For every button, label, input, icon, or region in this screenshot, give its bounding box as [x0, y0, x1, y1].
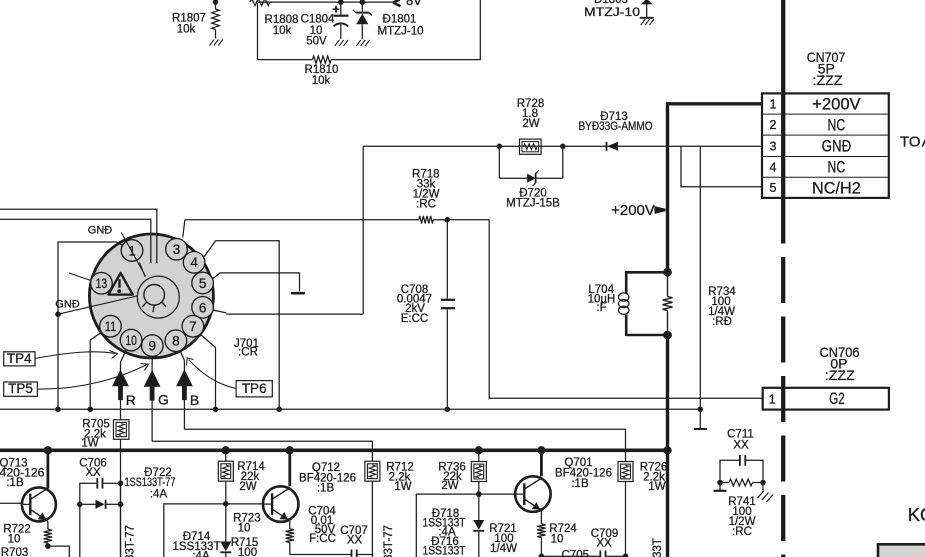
svg-text:2W: 2W	[522, 118, 539, 130]
svg-text:9: 9	[149, 339, 157, 354]
label R734	[708, 286, 736, 328]
svg-text:8V: 8V	[406, 0, 422, 8]
wire pin5 to ground	[213, 273, 300, 292]
label C706	[79, 458, 107, 480]
svg-text:6: 6	[199, 300, 207, 315]
labels D718/D716 stack	[423, 508, 466, 557]
svg-text:TP5: TP5	[8, 381, 33, 396]
ground (chassis) R741 right	[758, 483, 774, 503]
wire heater stubs into key	[151, 209, 157, 263]
label D722	[125, 467, 176, 501]
ground (bar) R741 left	[714, 483, 727, 491]
transistor Q712	[263, 486, 299, 521]
label J701	[234, 338, 259, 359]
label R721	[489, 523, 517, 555]
label R703 (partial)	[1, 547, 29, 557]
svg-text::CR: :CR	[238, 347, 258, 359]
zener D1803 (partial)	[594, 0, 654, 18]
node R728 left	[497, 144, 503, 150]
svg-text:BYÐ33G-AMMO: BYÐ33G-AMMO	[579, 121, 653, 133]
svg-text:10: 10	[125, 333, 137, 348]
svg-text::ZZZ: :ZZZ	[813, 72, 843, 88]
leader TP4	[35, 351, 118, 359]
node L704 top	[663, 268, 672, 277]
node pin11 drop	[87, 407, 93, 413]
diode D714	[220, 504, 231, 557]
node C708 bottom	[445, 407, 451, 413]
node D722 right	[118, 502, 124, 508]
resistor R741	[720, 479, 763, 486]
ground C1804	[335, 40, 348, 46]
label R1807	[172, 13, 206, 36]
node bus Q712 collector	[286, 446, 294, 454]
svg-text:E:CC: E:CC	[401, 313, 428, 325]
leader GND top	[121, 233, 145, 277]
label TO (page ref)	[900, 134, 925, 151]
svg-text:10k: 10k	[273, 25, 292, 37]
svg-text:KO: KO	[908, 504, 925, 525]
diode D713	[607, 142, 619, 151]
label D714	[173, 531, 221, 557]
node bus R736 top	[475, 446, 483, 454]
label Q712	[299, 462, 356, 495]
svg-text::4A: :4A	[150, 489, 168, 501]
svg-text:GNÐ: GNÐ	[55, 299, 80, 311]
wire B jog	[184, 429, 625, 461]
svg-text:1: 1	[769, 393, 776, 407]
wire pin6 to CN707 GND row	[363, 146, 762, 314]
svg-text:R: R	[126, 392, 136, 408]
svg-text:10: 10	[238, 523, 251, 535]
capacitor C706	[80, 478, 121, 504]
label C709	[591, 528, 619, 550]
node R741 left	[717, 480, 723, 486]
svg-text:10k: 10k	[312, 75, 331, 87]
svg-text:10: 10	[551, 534, 564, 546]
wire Q701 base jog	[416, 494, 479, 557]
label C711	[727, 429, 754, 452]
svg-text:NC: NC	[828, 116, 846, 134]
resistor R1810	[313, 56, 332, 63]
svg-text:7: 7	[189, 319, 197, 334]
wire heater supply H2 (top left)	[0, 218, 151, 220]
diode D722	[80, 500, 121, 509]
label R736	[438, 462, 466, 493]
svg-text:Ð1803: Ð1803	[594, 0, 628, 6]
svg-text:1/4W: 1/4W	[490, 543, 517, 555]
svg-text:C1804: C1804	[301, 14, 335, 26]
svg-text:1SS133T-77: 1SS133T-77	[125, 525, 137, 557]
svg-text:8: 8	[172, 334, 180, 349]
wire R cathode lower drop	[120, 483, 122, 557]
svg-text::RÐ: :RÐ	[712, 316, 732, 328]
label GND left	[55, 299, 80, 311]
wire GND bus (y=409)	[0, 408, 700, 410]
svg-text:5: 5	[770, 181, 777, 195]
node R736 bottom	[476, 491, 482, 497]
wire CN707 GND drop	[699, 146, 701, 428]
connector CN706 0P	[763, 388, 889, 410]
wire R cathode (pin10)	[121, 350, 127, 420]
svg-text:XX: XX	[85, 467, 101, 479]
svg-text:MTZJ-10: MTZJ-10	[378, 26, 424, 38]
svg-text::RC: :RC	[732, 526, 752, 538]
node R714 bottom	[223, 501, 229, 507]
svg-text:XX: XX	[733, 440, 749, 452]
wire Q713 collector	[47, 450, 50, 488]
wire B cathode (pin8)	[180, 351, 184, 430]
wire pin4 to GND bus	[204, 241, 280, 409]
svg-text:G2: G2	[829, 390, 845, 408]
node bus Q701 collector	[537, 446, 545, 454]
svg-text::RC: :RC	[416, 199, 436, 211]
label D1801	[378, 14, 424, 38]
label GND top	[88, 225, 113, 237]
svg-text:10: 10	[8, 534, 21, 546]
wire Q701 emitter out	[540, 538, 542, 557]
svg-text:1SS133T: 1SS133T	[652, 538, 664, 557]
capacitor C705 (partial)	[541, 550, 625, 557]
node pin1-gnd drop	[55, 407, 61, 413]
svg-text:XX: XX	[596, 538, 612, 550]
transistor Q713	[22, 487, 56, 521]
svg-text:13: 13	[96, 276, 108, 291]
net +8V (partial)	[393, 0, 422, 8]
resistor R724	[537, 524, 545, 538]
socket key glyph	[142, 285, 166, 313]
svg-text:TP4: TP4	[7, 351, 32, 366]
svg-text:1W: 1W	[81, 438, 98, 450]
label D713	[579, 111, 653, 133]
svg-text:NC/H2: NC/H2	[812, 179, 861, 197]
label R718	[412, 169, 440, 211]
label R741	[728, 496, 756, 538]
label C1804	[301, 14, 335, 48]
svg-text:2W: 2W	[441, 480, 458, 492]
capacitor C707 (partial)	[290, 550, 373, 557]
svg-text:TP6: TP6	[242, 381, 267, 396]
resistor R728 (fusible)	[520, 139, 542, 154]
wire Q713 emitter	[45, 518, 48, 530]
label C704	[308, 506, 336, 546]
wire +200V thick bus	[668, 104, 763, 557]
wire heater supply H1 (top left)	[0, 208, 157, 210]
svg-text:F:CC: F:CC	[309, 533, 336, 545]
label R1810	[305, 64, 339, 87]
wire +200V bottom bus	[0, 448, 668, 452]
svg-text:11: 11	[105, 319, 117, 334]
label R1808	[265, 14, 299, 37]
wire pin3 (G1) run	[183, 220, 490, 238]
node GND left leader	[55, 311, 61, 317]
svg-text:MTZJ-15B: MTZJ-15B	[506, 198, 560, 210]
svg-text:1W: 1W	[394, 481, 411, 493]
svg-text:R703: R703	[1, 547, 29, 557]
svg-text:1SS133T: 1SS133T	[423, 546, 466, 557]
resistor R736	[471, 450, 486, 494]
node bus bus corner	[663, 446, 671, 454]
svg-text::4A: :4A	[192, 551, 210, 557]
label Q701	[555, 457, 612, 490]
resistor R712	[365, 461, 380, 557]
svg-text::1B: :1B	[6, 477, 24, 489]
wire G2 to CN706	[489, 220, 763, 399]
svg-text:NC: NC	[828, 159, 846, 177]
resistor R705	[113, 420, 129, 440]
section boundary line (right)	[781, 0, 785, 557]
node R722 bottom	[45, 543, 51, 549]
label R715	[231, 537, 259, 557]
node pin4 drop	[276, 407, 282, 413]
svg-text:100: 100	[238, 547, 257, 557]
resistor R734	[663, 272, 673, 335]
diode D718	[473, 494, 484, 557]
testpoint TP6	[236, 381, 272, 397]
leader pin1 to shell	[140, 263, 146, 277]
wire Q712 collector	[288, 450, 291, 486]
svg-text:1SS133T-77: 1SS133T-77	[383, 525, 395, 557]
leader TP5	[37, 364, 148, 390]
svg-text:3: 3	[770, 139, 777, 153]
node D722 left	[77, 502, 83, 508]
wire Q701 emitter	[540, 508, 541, 524]
node C706 right	[118, 481, 124, 487]
zener D1801	[353, 2, 372, 39]
svg-text:GNÐ: GNÐ	[822, 138, 852, 156]
power block box outline	[258, 0, 481, 60]
label R714	[237, 461, 265, 493]
label C707	[340, 525, 368, 547]
ground R1807	[210, 40, 223, 46]
svg-text:GNÐ: GNÐ	[88, 225, 113, 237]
resistor R726	[618, 462, 633, 557]
socket pins 1-13	[91, 238, 214, 356]
ground D1801	[356, 40, 369, 46]
svg-text:2: 2	[770, 118, 777, 132]
warning triangle	[108, 273, 132, 295]
connector CN706 label	[820, 344, 860, 383]
connector CN707 5P	[762, 93, 889, 197]
label R723	[233, 513, 261, 535]
leader TP6	[187, 358, 237, 389]
svg-text:1W: 1W	[648, 481, 665, 493]
svg-text:10k: 10k	[177, 24, 196, 36]
svg-text:5: 5	[199, 276, 207, 291]
resistor R1807	[212, 0, 220, 38]
label R726	[640, 462, 668, 494]
wire Q712 emitter out	[289, 543, 291, 555]
inductor L704	[619, 271, 668, 336]
connector CN707 label	[807, 49, 846, 88]
node bus Q713 collector	[44, 446, 52, 454]
svg-text:MTZJ-10: MTZJ-10	[584, 7, 640, 19]
arrow R	[112, 370, 136, 409]
node D1801 top	[360, 0, 366, 5]
svg-text:3: 3	[173, 242, 181, 257]
wire to Q701 base	[479, 493, 516, 495]
resistor R718	[419, 216, 433, 224]
label R722	[3, 524, 31, 546]
node C708 top	[445, 217, 451, 223]
wire R drop	[120, 440, 122, 557]
svg-text:C705: C705	[562, 550, 590, 557]
arrow B	[176, 370, 199, 409]
arrow G	[144, 370, 169, 408]
svg-text::1B: :1B	[571, 478, 589, 490]
node C705 left	[539, 554, 545, 557]
wire G cathode (pin9)	[151, 356, 153, 441]
svg-text:Ð1801: Ð1801	[383, 14, 417, 26]
label R728	[517, 98, 545, 130]
label D1803	[584, 7, 640, 19]
svg-text::F: :F	[596, 302, 606, 314]
wire Q712 emitter	[289, 518, 290, 529]
node GND drop	[698, 407, 704, 413]
svg-text:TO: TO	[900, 134, 921, 151]
label KO (partial)	[908, 504, 925, 525]
wire pin7 to GND bus	[201, 335, 216, 410]
label rotated 1SS133T (right)	[652, 538, 664, 557]
wire pin1 to GND bus	[58, 242, 123, 409]
label R712	[386, 462, 414, 494]
svg-text:4: 4	[190, 255, 198, 270]
capacitor C711	[720, 455, 763, 483]
svg-text:1: 1	[770, 97, 777, 111]
wire to CN707 NC/H2 row	[681, 146, 762, 187]
svg-text:B: B	[190, 392, 199, 408]
ground (bar) pin5	[291, 292, 305, 295]
label rotated 1SS133T-77 (mid)	[383, 525, 395, 557]
resistor R722	[44, 529, 52, 543]
svg-text:1SS133T-77: 1SS133T-77	[125, 477, 176, 489]
svg-text:+200V: +200V	[611, 202, 655, 219]
label D720	[506, 188, 560, 210]
transistor Q701	[515, 476, 551, 512]
ground (bar) GND drop	[694, 428, 707, 430]
node R728 right	[560, 144, 566, 150]
wire R722 out	[48, 546, 69, 557]
label L704	[588, 284, 616, 314]
svg-text:50V: 50V	[306, 36, 327, 48]
label rotated 1SS133T-77 (left)	[125, 525, 137, 557]
CRT socket J701 shell	[89, 234, 213, 358]
testpoint TP4	[4, 351, 35, 366]
resistor R723	[286, 529, 294, 543]
label R705	[81, 419, 109, 450]
svg-text:XX: XX	[347, 535, 363, 547]
wire Q701 collector	[540, 450, 543, 476]
node pin7 drop	[213, 407, 219, 413]
svg-text::ZZZ: :ZZZ	[825, 367, 855, 383]
node bus R714 top	[222, 446, 230, 454]
leader GND left to shell	[58, 296, 137, 314]
leader pin13	[69, 273, 91, 281]
wire pin11 to GND bus	[90, 332, 101, 409]
resistor R1808 (partial at top edge)	[250, 0, 270, 6]
wire top rail in power block	[258, 1, 395, 3]
resistor R714	[218, 450, 233, 504]
label Q713	[0, 458, 44, 490]
capacitor C1804 (electrolytic)	[332, 2, 348, 39]
label C708	[397, 284, 432, 325]
ground D1803	[641, 19, 654, 25]
wire to Q712 base	[226, 503, 264, 505]
node C705 right	[623, 554, 629, 557]
testpoint TP5	[4, 381, 38, 396]
svg-text:4: 4	[770, 160, 777, 174]
wire pin6	[213, 310, 363, 314]
wire D722 left drop	[79, 504, 81, 557]
capacitor C708	[441, 220, 455, 410]
wire Q712 base jog	[164, 504, 226, 557]
node C1804 top	[338, 0, 344, 5]
node L704 bottom	[663, 331, 672, 340]
wire Q713 base	[0, 502, 22, 504]
svg-text:G: G	[158, 392, 169, 408]
svg-text:+200V: +200V	[812, 96, 861, 114]
socket key circle	[137, 276, 179, 318]
zener D720	[499, 146, 563, 186]
label R724	[549, 523, 577, 546]
svg-text::1B: :1B	[317, 483, 335, 495]
net label +200V	[611, 202, 665, 219]
node R741 right	[760, 480, 766, 486]
svg-text:2W: 2W	[239, 481, 256, 493]
wire G jog	[152, 441, 372, 461]
connector body (bottom right, partial)	[878, 544, 925, 557]
